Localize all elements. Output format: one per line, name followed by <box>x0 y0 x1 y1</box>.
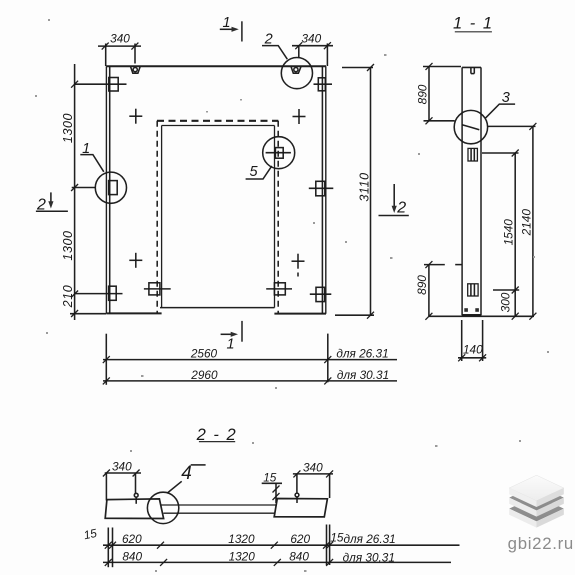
svg-text:2140: 2140 <box>520 209 534 237</box>
svg-text:210: 210 <box>61 285 75 309</box>
svg-text:1320: 1320 <box>228 532 255 546</box>
dim 340 left (2-2) <box>105 472 141 474</box>
column right edge <box>480 67 482 315</box>
lifting loop right <box>291 67 301 73</box>
scan specks <box>48 19 50 21</box>
svg-text:2: 2 <box>264 31 273 47</box>
detail circle 2 <box>281 58 312 89</box>
dim 1540/300 line <box>514 153 516 316</box>
dim 340 top-left <box>98 45 141 47</box>
LOGO PLACEHOLDER <box>508 475 574 553</box>
svg-text:890: 890 <box>415 275 429 295</box>
svg-text:15: 15 <box>263 470 277 484</box>
svg-text:890: 890 <box>416 84 430 104</box>
opening dashed right <box>277 121 279 313</box>
loop dot right <box>295 493 299 497</box>
embed S1 hatched <box>468 148 477 161</box>
top loop notch <box>470 67 472 73</box>
svg-text:840: 840 <box>289 549 309 563</box>
joint line in circle 3 <box>462 125 479 130</box>
detail circle 4 <box>147 492 178 523</box>
svg-text:1: 1 <box>226 336 234 352</box>
bottom dots <box>464 308 468 312</box>
embed M5 mid-right <box>309 187 334 189</box>
opening right edge <box>274 126 276 308</box>
column top edge <box>462 66 481 68</box>
opening dashed top <box>157 120 278 122</box>
embed M2 in circle 1 <box>72 187 96 189</box>
dim chain line 1 <box>103 544 460 546</box>
right block <box>274 499 327 517</box>
svg-text:620: 620 <box>122 532 142 546</box>
dim chain line 2 <box>103 561 451 563</box>
opening dashed left <box>156 121 158 313</box>
svg-text:15: 15 <box>82 526 98 543</box>
dim 340 right (2-2) <box>293 473 333 475</box>
dim 890 bottom <box>428 265 430 317</box>
opening bottom line <box>160 307 275 309</box>
dim 140 bottom <box>461 320 463 361</box>
dim 15 mid <box>262 482 282 484</box>
svg-text:1 - 1: 1 - 1 <box>453 15 494 33</box>
logo slab 1 (top) <box>509 475 564 507</box>
left block <box>105 499 163 519</box>
section mark 1 bottom <box>221 333 234 335</box>
bottom extension line <box>429 315 534 317</box>
embed M8 opening bottom-right <box>266 288 292 290</box>
dim line 2560 <box>103 359 397 361</box>
svg-text:для 26.31: для 26.31 <box>343 532 395 546</box>
svg-text:340: 340 <box>112 460 132 474</box>
opening left edge <box>161 126 163 308</box>
detail circle 5 <box>263 137 295 169</box>
cross mark top-right <box>293 116 306 118</box>
svg-text:2: 2 <box>396 200 406 217</box>
detail circle 1 <box>95 172 126 203</box>
embed M6 bottom-right <box>310 293 332 295</box>
embed M9 in circle 5 <box>266 152 291 154</box>
svg-text:340: 340 <box>303 461 323 475</box>
column left edge <box>461 67 463 315</box>
svg-text:840: 840 <box>122 549 142 563</box>
svg-text:4: 4 <box>181 463 192 484</box>
cross mark bottom-right <box>292 260 305 262</box>
logo slab 2 (middle) <box>509 485 564 517</box>
logo slab 3 (bottom) <box>509 496 564 528</box>
svg-text:1320: 1320 <box>229 549 256 563</box>
dim line 2960 <box>103 380 397 382</box>
lifting loop left <box>131 67 141 73</box>
svg-text:15: 15 <box>330 531 344 545</box>
cross mark bottom-left <box>129 259 142 261</box>
svg-text:1: 1 <box>223 15 231 31</box>
panel bottom edge right leg <box>274 313 326 315</box>
panel right edge (double line) <box>321 66 323 314</box>
svg-text:140: 140 <box>463 342 483 356</box>
section mark 2 left <box>50 192 52 204</box>
svg-text:340: 340 <box>110 32 130 46</box>
svg-text:для 30.31: для 30.31 <box>337 368 389 382</box>
embed M3 bottom-left <box>75 293 123 295</box>
column bottom edge <box>462 314 482 316</box>
svg-text:для 26.31: для 26.31 <box>336 347 388 361</box>
cross mark top-left <box>129 115 142 117</box>
svg-text:1: 1 <box>82 141 90 157</box>
detail circle 3 <box>454 110 487 143</box>
svg-text:3: 3 <box>502 90 510 106</box>
svg-text:620: 620 <box>290 532 310 546</box>
web plate bottom <box>164 512 275 514</box>
embed S2 hatched <box>468 284 478 296</box>
web plate top <box>161 504 277 506</box>
svg-text:340: 340 <box>301 32 321 46</box>
dim 340 top-right <box>292 45 333 47</box>
section mark 1 top <box>220 28 235 30</box>
svg-text:3110: 3110 <box>358 172 372 201</box>
loop dot left <box>134 493 138 497</box>
embed M1 top-left <box>75 83 127 85</box>
svg-text:5: 5 <box>249 164 258 180</box>
svg-text:2960: 2960 <box>190 368 218 382</box>
section mark 2 right <box>393 184 395 209</box>
svg-text:gbi22.ru: gbi22.ru <box>508 534 574 553</box>
embed M4 top-right <box>314 83 333 85</box>
svg-text:300: 300 <box>499 292 513 312</box>
panel top edge <box>106 65 326 67</box>
bottom right double extension <box>326 525 328 566</box>
svg-text:для 30.31: для 30.31 <box>343 550 395 564</box>
svg-text:1300: 1300 <box>61 230 75 260</box>
dim 2140 line <box>532 126 534 316</box>
panel left edge (double line) <box>105 66 107 313</box>
svg-text:2560: 2560 <box>190 346 218 360</box>
bottom left double extension <box>107 528 109 568</box>
opening top edge <box>162 125 275 127</box>
dim 890 top <box>428 66 430 120</box>
svg-text:2: 2 <box>36 197 46 214</box>
svg-text:1540: 1540 <box>502 219 516 246</box>
svg-text:1300: 1300 <box>61 113 75 143</box>
left dimension line <box>74 64 76 320</box>
bottom dim extension lines <box>105 334 107 385</box>
dim 3110 line <box>370 68 372 316</box>
embed M7 opening bottom-left <box>144 288 171 290</box>
panel bottom edge left leg <box>106 312 161 314</box>
